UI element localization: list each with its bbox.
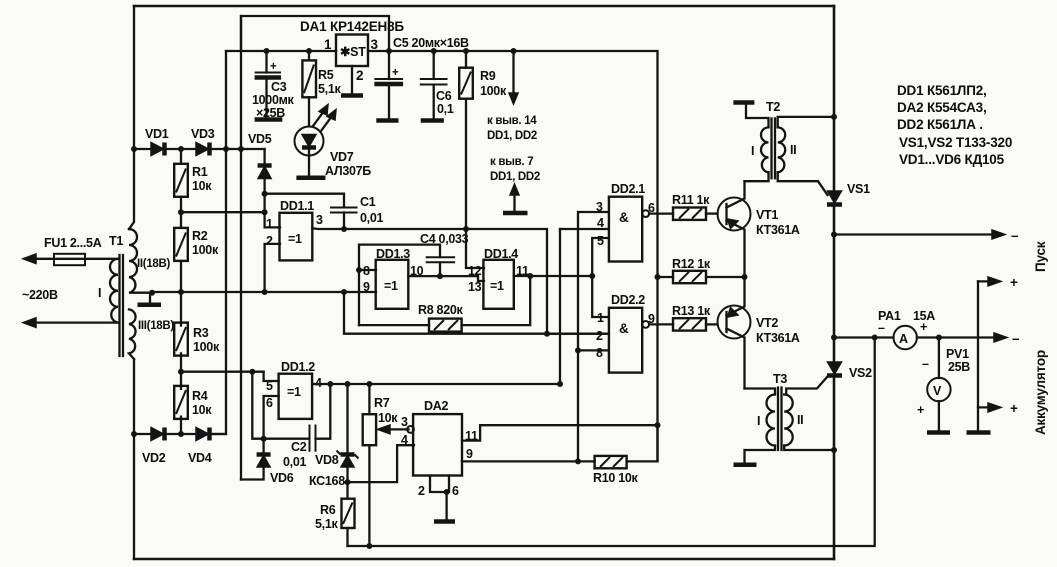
potentiometer R7 — [368, 384, 370, 546]
resistor R10 — [595, 456, 627, 468]
fuse FU1 — [54, 254, 85, 265]
svg-text:к выв. 14: к выв. 14 — [487, 115, 537, 127]
svg-text:A: A — [899, 332, 908, 346]
wire PA1 to battery minus arrow — [917, 336, 998, 338]
svg-text:T3: T3 — [773, 372, 787, 386]
svg-text:R5: R5 — [318, 68, 334, 82]
resistor R6 — [346, 482, 348, 546]
svg-text:VT2: VT2 — [756, 316, 778, 330]
svg-text:VD6: VD6 — [270, 471, 294, 485]
svg-text:VD1: VD1 — [145, 127, 169, 141]
svg-text:DD1, DD2: DD1, DD2 — [487, 130, 537, 142]
svg-text:0,01: 0,01 — [283, 455, 306, 469]
arrowhead mains top — [23, 254, 36, 264]
node bus PA1 row — [831, 335, 837, 341]
resistor R1 — [180, 149, 182, 212]
resistor R13 — [673, 318, 706, 330]
svg-text:+: + — [270, 61, 277, 73]
svg-text:×25В: ×25В — [256, 106, 285, 120]
wire supply rail output section going to right feed bus — [368, 51, 658, 461]
wire lower rectifier row VD2 VD4 — [134, 433, 226, 435]
wire T2 winding II top to right bus — [778, 117, 834, 128]
svg-text:T2: T2 — [766, 100, 780, 114]
svg-text:5,1к: 5,1к — [315, 517, 338, 531]
transformer T2 winding I — [761, 127, 768, 172]
node pin9 row x578 — [575, 458, 581, 464]
wire PA1 row — [834, 336, 894, 338]
svg-text:DA2: DA2 — [424, 399, 448, 413]
svg-text:0,01: 0,01 — [360, 211, 383, 225]
ground bar C6 — [421, 118, 444, 123]
transformer T3 winding II — [784, 395, 793, 446]
wire right bus mid — [833, 204, 836, 362]
wire left bus lower — [133, 359, 135, 559]
svg-text:DA2 К554СА3,: DA2 К554СА3, — [897, 100, 987, 115]
node pin8 tie — [575, 347, 581, 353]
svg-text:2: 2 — [266, 234, 273, 248]
svg-text:C2: C2 — [291, 440, 307, 454]
svg-text:+: + — [1010, 401, 1018, 416]
svg-text:VD2: VD2 — [142, 451, 166, 465]
battery plus lower arrow — [978, 406, 992, 408]
svg-text:II(18В): II(18В) — [137, 258, 171, 270]
svg-text:–: – — [878, 321, 885, 335]
svg-text:VD7: VD7 — [330, 150, 354, 164]
capacitor C1 — [330, 207, 358, 209]
ground bar C3 — [255, 117, 283, 122]
wire pin12 jog from row229 — [466, 229, 484, 268]
svg-text:V: V — [933, 384, 942, 398]
wire T2 winding I bottom to VT1 collector — [745, 172, 769, 181]
svg-text:R1: R1 — [192, 165, 208, 179]
VT2 emitter arrow — [728, 308, 739, 318]
diode VD1 — [151, 143, 164, 156]
ground bar C5 — [376, 118, 398, 123]
node T1 center tap — [149, 290, 155, 296]
wire DD2.2 pin2 stub — [547, 333, 609, 335]
wire pin10 row to DD1.4 pin13 — [408, 276, 484, 281]
svg-text:6: 6 — [452, 484, 459, 498]
svg-text:10к: 10к — [378, 411, 398, 425]
svg-text:R9: R9 — [480, 69, 496, 83]
wire DD2.2 pin9 to R13 — [649, 323, 673, 325]
svg-text:13: 13 — [468, 280, 482, 294]
svg-text:~220В: ~220В — [22, 288, 58, 302]
wire VD5 node down to pin1 node — [263, 194, 265, 213]
transistor VT2 — [718, 306, 751, 339]
svg-text:&: & — [619, 321, 629, 336]
svg-text:100к: 100к — [192, 243, 219, 257]
svg-text:R3: R3 — [193, 326, 209, 340]
transformer T3 core — [778, 388, 782, 451]
wire DD2.1 pin3 row and tie vertical x578 — [578, 212, 609, 461]
svg-text:II: II — [797, 413, 803, 427]
battery plus terminal column — [977, 281, 979, 431]
node rectifier row R1 — [178, 146, 184, 152]
node row425 bus — [655, 422, 661, 428]
transformer T2 winding II — [778, 127, 786, 172]
wire riser x252 to row439 — [252, 372, 307, 439]
svg-text:1000мк: 1000мк — [252, 93, 295, 107]
R7 wiper arrow from DA2 pin3 — [384, 428, 409, 430]
svg-text:I: I — [757, 414, 760, 428]
wire left bus — [129, 6, 134, 229]
node VD5 anode row194 — [262, 191, 268, 197]
svg-text:=1: =1 — [287, 385, 301, 399]
svg-text:R10 10к: R10 10к — [593, 471, 639, 485]
svg-text:C3: C3 — [271, 80, 287, 94]
IC DA1 box — [336, 35, 368, 67]
resistor R5 — [308, 51, 310, 126]
gate DD2.1 — [609, 197, 642, 262]
wire bottom bus — [134, 558, 834, 561]
node rectifier row left bus — [131, 146, 137, 152]
node row229 R9 vertical — [463, 226, 469, 232]
ammeter PA1 — [894, 326, 917, 349]
node rail R9 — [463, 48, 469, 54]
DA2 pins 2 and 6 — [430, 476, 449, 521]
wire pin5 jog — [264, 372, 279, 381]
svg-text:&: & — [619, 210, 629, 225]
node rectifier row vertical A — [223, 146, 229, 152]
svg-text:VD3: VD3 — [191, 127, 215, 141]
svg-text:=1: =1 — [384, 279, 398, 293]
VD7 cathode stem and ground bar — [308, 156, 310, 177]
node R7 bottom row546 — [366, 543, 372, 549]
diode VD5 — [263, 149, 265, 194]
node row384 pin4 riser — [557, 381, 563, 387]
svg-text:100к: 100к — [480, 84, 507, 98]
svg-text:=1: =1 — [288, 232, 302, 246]
capacitor C2 — [310, 425, 316, 452]
DA1 pin2 stem and ground bar — [351, 66, 353, 94]
transformer T2 core — [772, 118, 776, 178]
svg-text:=1: =1 — [490, 279, 504, 293]
T1 center tap stub and bar — [149, 293, 151, 303]
wire DD2.1 pin4 stub — [560, 228, 609, 230]
svg-text:FU1 2...5A: FU1 2...5A — [44, 236, 102, 250]
svg-text:Пуск: Пуск — [1033, 241, 1048, 272]
svg-text:–: – — [1011, 228, 1019, 243]
wire T3 winding I top to VT2 — [745, 389, 776, 395]
transformer T1 core — [120, 255, 124, 356]
node PV1 riser — [936, 335, 942, 341]
wire Пуск row with arrow — [834, 233, 996, 235]
svg-text:R11 1к: R11 1к — [672, 193, 710, 207]
svg-text:DD2.2: DD2.2 — [611, 293, 645, 307]
svg-text:+: + — [920, 320, 927, 334]
svg-text:R4: R4 — [192, 389, 208, 403]
wire vertical A rail to lower diode row — [211, 51, 226, 434]
node VD8 riser row384 — [345, 381, 351, 387]
wire DD2.2 pin8 stub — [578, 349, 609, 351]
svg-text:R8 820к: R8 820к — [418, 303, 464, 317]
wire DA2 pin9 row to R10 — [462, 460, 595, 462]
resistor R8 — [359, 276, 530, 325]
wire DD2.1 pin5 jog — [592, 238, 609, 276]
svg-text:10к: 10к — [192, 403, 212, 417]
gate DD1.2 — [279, 374, 313, 419]
node pin8 — [356, 267, 362, 273]
PV1 ground — [938, 401, 940, 431]
svg-text:к выв. 7: к выв. 7 — [490, 156, 533, 168]
node R3 R4 junction — [178, 369, 184, 375]
svg-text:DD1.2: DD1.2 — [281, 360, 315, 374]
comparator DA2 box — [413, 414, 462, 475]
node R7 riser row384 — [366, 381, 372, 387]
wire DD1.1 output row229 — [312, 228, 547, 333]
wire row194 C1 top link — [265, 194, 344, 207]
wire vertical B VD6 return — [240, 16, 242, 480]
node R8 right riser — [527, 273, 533, 279]
svg-text:II: II — [790, 143, 796, 157]
diode VD4 — [196, 428, 209, 441]
node rail pin14 arrow — [511, 48, 517, 54]
svg-text:R13 1к: R13 1к — [672, 304, 711, 318]
svg-text:III(18В): III(18В) — [138, 320, 174, 332]
wire mains input top with arrow — [30, 258, 118, 260]
svg-text:C5 20мк×16В: C5 20мк×16В — [393, 36, 469, 50]
LED VD7 — [295, 127, 324, 156]
resistor R12 — [658, 276, 674, 278]
wire DD2.2 pin1 jog — [592, 276, 609, 317]
transformer T1 secondary winding III — [129, 309, 136, 359]
VT1 emitter arrow — [728, 219, 739, 229]
svg-text:25В: 25В — [948, 360, 970, 374]
svg-text:VS2: VS2 — [849, 366, 872, 380]
gate DD1.3 — [376, 260, 409, 309]
svg-text:C1: C1 — [360, 195, 376, 209]
wire row482 to DA2 pin4 — [348, 445, 415, 482]
arrowhead mains bottom — [23, 318, 36, 328]
node C1 bottom — [341, 226, 347, 232]
wire T2 winding II bottom to VS1 gate — [778, 172, 828, 195]
svg-text:C4 0,033: C4 0,033 — [420, 232, 469, 246]
wire pin8 stub — [359, 269, 376, 271]
gate DD1.1 — [280, 213, 313, 261]
DD2.2 output bubble pin9 — [642, 321, 649, 328]
svg-text:VD4: VD4 — [188, 451, 212, 465]
capacitor C3 electrolytic — [265, 51, 267, 118]
svg-text:1: 1 — [324, 37, 332, 52]
svg-text:4: 4 — [401, 433, 408, 447]
node C4 bottom — [437, 273, 443, 279]
wire pin6 jog down — [264, 396, 279, 439]
node VD6 top — [261, 436, 267, 442]
capacitor C5 electrolytic — [388, 51, 390, 119]
svg-text:5,1к: 5,1к — [318, 82, 341, 96]
node R1 R2 junction — [178, 209, 184, 215]
capacitor C4 — [426, 256, 455, 258]
svg-text:VD1...VD6 КД105: VD1...VD6 КД105 — [899, 152, 1005, 167]
wire DA1 bypass loop — [241, 16, 389, 51]
node rail bus R12 — [655, 274, 661, 280]
svg-text:R12 1к: R12 1к — [672, 257, 711, 271]
svg-text:DD1 К561ЛП2,: DD1 К561ЛП2, — [897, 83, 987, 98]
node PA1 return riser — [872, 335, 878, 341]
wire center row 292 T1 tap to DD1.3 pin9 — [152, 291, 376, 293]
svg-text:8: 8 — [596, 346, 603, 360]
svg-text:2: 2 — [596, 329, 603, 343]
node x344 row292 — [341, 289, 347, 295]
svg-text:DD1.1: DD1.1 — [280, 199, 314, 213]
DA2 pin3 bubble — [407, 426, 414, 433]
node R12 emitter rail — [742, 274, 748, 280]
svg-text:0,1: 0,1 — [437, 102, 454, 116]
svg-text:КТ361А: КТ361А — [756, 331, 800, 345]
svg-text:6: 6 — [266, 396, 273, 410]
capacitor C6 — [433, 51, 435, 119]
svg-text:9: 9 — [363, 280, 370, 294]
svg-text:10к: 10к — [192, 179, 212, 193]
diode VD6 — [257, 452, 271, 457]
svg-text:9: 9 — [466, 447, 473, 461]
resistor R9 — [465, 51, 467, 229]
node pin2 row292 — [262, 289, 268, 295]
svg-text:DD1.4: DD1.4 — [484, 247, 518, 261]
svg-text:VT1: VT1 — [756, 208, 778, 222]
svg-text:R6: R6 — [320, 503, 336, 517]
svg-text:+: + — [1010, 275, 1018, 290]
gate DD2.2 — [609, 308, 642, 373]
diode VD3 — [196, 143, 209, 156]
svg-text:C6: C6 — [436, 89, 452, 103]
svg-text:DD2.1: DD2.1 — [611, 182, 645, 196]
wire bottom return row546 — [348, 338, 875, 547]
wire pin1 jog — [265, 212, 280, 227]
svg-text:I: I — [751, 144, 754, 158]
wire divider row R1R2 to DD1.1 pin1 — [181, 211, 265, 213]
node divider row pin5 riser — [249, 369, 255, 375]
wire DD1.2 output row384 — [312, 229, 560, 384]
node rail C3 — [264, 48, 270, 54]
svg-text:+: + — [392, 67, 399, 79]
svg-text:АЛ307Б: АЛ307Б — [325, 164, 371, 178]
T2 supply terminal bar — [733, 100, 754, 105]
node pin5 pin1 tie — [589, 273, 595, 279]
wire row292 x344 drop to row334 — [344, 292, 609, 334]
wire DD2.1 pin6 to R11 — [649, 212, 673, 214]
DD2.1 output bubble pin6 — [642, 210, 649, 217]
svg-text:3: 3 — [316, 213, 323, 227]
svg-text:VS1,VS2 Т133-320: VS1,VS2 Т133-320 — [899, 135, 1012, 150]
svg-text:T1: T1 — [109, 234, 123, 248]
svg-text:КТ361А: КТ361А — [756, 223, 800, 237]
svg-text:2: 2 — [356, 68, 363, 83]
voltmeter PV1 — [938, 338, 940, 379]
node T2 II top bus — [831, 114, 837, 120]
svg-text:DA1 КР142ЕН8Б: DA1 КР142ЕН8Б — [300, 19, 404, 34]
gate DD1.4 — [483, 260, 513, 309]
node rail C6 — [431, 48, 437, 54]
svg-text:5: 5 — [597, 234, 604, 248]
transformer T1 secondary winding II — [129, 229, 152, 293]
svg-text:VD5: VD5 — [248, 132, 272, 146]
node R2 bottom row292 — [178, 289, 184, 295]
svg-text:КС168: КС168 — [309, 474, 345, 488]
wire pin2 jog down to row292 — [265, 244, 280, 292]
wire DD1.4 output row276 — [514, 275, 592, 277]
transistor VT1 — [718, 198, 751, 231]
svg-text:PV1: PV1 — [946, 347, 969, 361]
svg-text:3: 3 — [371, 37, 379, 52]
node lower row left bus — [131, 431, 137, 437]
svg-text:–: – — [1012, 331, 1020, 346]
resistor R3 — [180, 292, 182, 372]
svg-text:DD2 К561ЛА .: DD2 К561ЛА . — [897, 117, 983, 132]
node rectifier row vertical B — [238, 146, 244, 152]
svg-text:3: 3 — [401, 415, 408, 429]
svg-text:R7: R7 — [374, 396, 390, 410]
thyristor VS2 — [828, 362, 842, 374]
node C2 riser row384 — [327, 381, 333, 387]
ground arrow pin 7 — [510, 184, 519, 195]
diode VD2 — [151, 428, 164, 441]
battery plus upper arrow — [978, 280, 992, 282]
svg-text:+: + — [917, 403, 924, 417]
node pin6 stub — [444, 489, 450, 495]
svg-text:Аккумулятор: Аккумулятор — [1033, 350, 1048, 435]
wire T3 winding II top to VS2 gate — [786, 377, 827, 395]
svg-text:VD8: VD8 — [315, 453, 339, 467]
resistor R11 — [673, 208, 706, 220]
svg-text:✱ST: ✱ST — [340, 45, 366, 59]
wire divider row R3R4 to DD1.2 pin5 — [181, 371, 264, 373]
node T3 II bottom bus — [831, 447, 837, 453]
svg-text:R2: R2 — [192, 229, 208, 243]
svg-text:DD1, DD2: DD1, DD2 — [490, 171, 540, 183]
wire C4 top loop and pin8 vertical — [359, 245, 440, 326]
wire mains input bottom with arrow — [30, 321, 118, 323]
svg-text:DD1.3: DD1.3 — [376, 247, 410, 261]
svg-text:I: I — [98, 286, 101, 300]
resistor R4 — [180, 372, 182, 434]
node rail C5 — [386, 48, 392, 54]
svg-text:8: 8 — [363, 264, 370, 278]
node row334 x547 — [544, 331, 550, 337]
supply arrow to pin 14 — [512, 51, 514, 95]
svg-text:VS1: VS1 — [847, 182, 870, 196]
node VD8 R6 junction — [345, 479, 351, 485]
node DD1.1 pin1 — [262, 209, 268, 215]
zener VD8 — [346, 384, 348, 482]
ground bar DA2 — [434, 519, 455, 524]
LED VD7 emission arrows — [313, 111, 324, 126]
wire right bus upper — [833, 6, 836, 191]
wire rectifier row VD1 VD3 — [134, 148, 265, 150]
svg-text:1: 1 — [266, 217, 273, 231]
wire T3 winding II bottom to bus — [784, 446, 834, 451]
wire supply rail input section — [226, 50, 336, 52]
svg-text:12: 12 — [468, 264, 482, 278]
transformer T1 primary winding I — [110, 259, 118, 323]
svg-text:2: 2 — [418, 484, 425, 498]
node lower row R4 — [178, 431, 184, 437]
wire top bus — [134, 5, 834, 8]
resistor R2 — [180, 212, 182, 292]
wire right bus lower — [833, 375, 836, 560]
thyristor VS1 — [828, 191, 842, 203]
transformer T3 winding I — [767, 395, 776, 446]
wire T3 winding I bottom to ground — [745, 446, 776, 464]
node bus Пуск row — [831, 232, 837, 238]
wire DA2 pin11 jog to row425 — [462, 425, 658, 440]
node rail R5 — [306, 48, 312, 54]
svg-text:–: – — [922, 357, 929, 371]
svg-text:100к: 100к — [193, 340, 220, 354]
